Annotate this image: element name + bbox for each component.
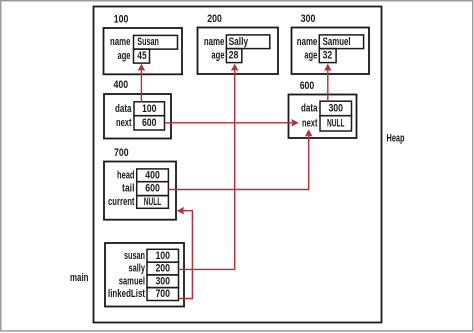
list node box 600 [289,80,357,138]
heap enclosure box [94,7,382,323]
svg-text:100: 100 [114,13,129,25]
age field box 100 [134,49,150,63]
svg-text:next: next [302,117,318,129]
svg-text:300: 300 [155,275,170,287]
svg-text:600: 600 [300,80,315,92]
svg-text:700: 700 [155,288,170,300]
svg-text:age: age [118,50,131,62]
node box 300 (Samuel) [292,13,370,74]
svg-text:28: 28 [229,50,239,62]
svg-text:300: 300 [328,103,343,115]
svg-text:data: data [115,103,132,115]
svg-text:NULL: NULL [144,196,162,208]
head field box 700 [137,169,169,182]
svg-text:next: next [116,117,132,129]
data field box 400 [134,102,165,116]
data field box 600 [320,101,352,116]
record outline 700 [104,162,176,220]
svg-text:600: 600 [145,183,160,195]
svg-text:300: 300 [301,13,316,25]
arrowhead right at 600.next [291,119,298,127]
tail field box 700 [137,182,169,196]
current field box 700 [137,196,169,209]
svg-text:susan: susan [124,250,145,262]
wire 700.tail to 600 bottom [168,135,308,189]
arrowhead up at 600 bottom [305,129,313,136]
name field box 300 [319,35,363,49]
main stack frame box [105,243,184,307]
svg-text:700: 700 [114,147,129,159]
svg-text:linkedList: linkedList [108,288,145,300]
svg-text:200: 200 [155,263,170,275]
age field box 200 [226,49,241,63]
samuel slot box [147,275,179,288]
svg-text:Heap: Heap [387,132,405,144]
svg-text:32: 32 [323,50,333,62]
svg-text:head: head [117,169,135,181]
svg-text:age: age [304,50,317,62]
svg-text:200: 200 [207,13,222,25]
svg-text:100: 100 [142,103,157,115]
svg-text:600: 600 [142,117,157,129]
record outline 300 [292,28,370,75]
svg-text:400: 400 [145,169,160,181]
linked list header box 700 [104,147,176,220]
sally slot box [147,262,179,275]
svg-text:name: name [204,36,225,48]
linkedList slot box [147,288,179,301]
next field box 400 [134,116,165,130]
stack frame outline [105,243,184,307]
susan slot box [147,249,179,262]
svg-text:tail: tail [122,183,135,195]
list node box 400 [104,79,171,139]
name field box 100 [134,35,178,49]
record outline 100 [104,28,183,74]
svg-text:sally: sally [129,263,146,275]
record outline 400 [104,94,171,139]
name field box 200 [226,35,269,49]
wire sally to 200.age [179,70,235,270]
arrowhead up at 100.age [138,64,146,71]
svg-text:age: age [211,50,224,62]
age field box 300 [319,49,336,63]
svg-text:45: 45 [137,50,146,62]
record outline 200 [198,28,279,75]
svg-text:name: name [110,36,131,48]
arrowhead up at 200.age [231,64,239,71]
svg-text:current: current [108,196,135,208]
svg-text:main: main [70,272,89,284]
svg-text:samuel: samuel [119,275,145,287]
wire linkedList to 700 [179,211,193,299]
svg-text:100: 100 [155,250,170,262]
next field box 600 [320,116,352,131]
node box 200 (Sally) [198,13,279,74]
wire 600.data to 300.age [327,70,329,102]
wire 400.next to 600 [165,122,293,124]
arrowhead up at 300.age [324,64,332,71]
svg-text:Susan: Susan [137,36,159,48]
svg-text:name: name [297,36,318,48]
arrowhead left at 700 [177,207,184,215]
record outline 600 [289,95,357,139]
svg-text:NULL: NULL [327,117,345,129]
svg-text:Samuel: Samuel [323,36,351,48]
svg-text:Sally: Sally [229,36,249,48]
svg-text:400: 400 [114,79,129,91]
node box 100 (Susan) [104,13,183,74]
wire 400.data to 100.age [140,70,142,103]
svg-text:data: data [301,103,318,115]
